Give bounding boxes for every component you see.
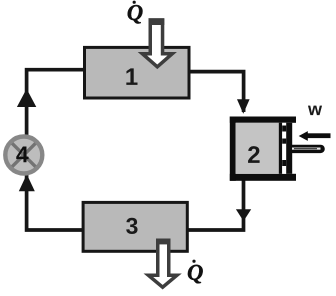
wire left loop: box1 left, down through valve 4, to box3 left	[27, 70, 84, 230]
work arrow w	[299, 131, 331, 141]
piston rod	[292, 145, 325, 153]
heat output block arrow (bottom)	[148, 239, 177, 288]
wire top right: box1 right to cylinder 2 top	[189, 72, 244, 112]
cylinder top wall	[230, 117, 296, 123]
heat exchanger box 1	[85, 47, 190, 98]
label Qdot top	[128, 1, 143, 24]
piston ring column	[282, 123, 286, 174]
arrowhead down on lower right wire	[236, 209, 251, 221]
label Qdot bottom	[188, 260, 203, 284]
piston body	[286, 123, 292, 174]
label 1	[126, 68, 137, 85]
label w	[308, 106, 322, 116]
piston-cylinder 2	[230, 117, 325, 181]
heat input block arrow (top)	[142, 18, 172, 67]
piston face	[279, 123, 282, 174]
label 2	[248, 146, 260, 163]
cylinder bottom wall	[230, 174, 296, 181]
arrowhead down into cylinder 2	[237, 99, 250, 113]
expansion valve 4	[5, 137, 42, 174]
gas volume	[236, 123, 279, 174]
arrowhead up on left wire	[17, 89, 36, 107]
heat exchanger box 3	[83, 202, 187, 251]
cylinder left wall	[230, 117, 236, 181]
label 4	[16, 146, 28, 162]
label 3	[126, 218, 137, 234]
arrowhead up into valve 4	[19, 174, 35, 191]
wire bottom right: cylinder 2 bottom to box3 right	[188, 179, 244, 230]
